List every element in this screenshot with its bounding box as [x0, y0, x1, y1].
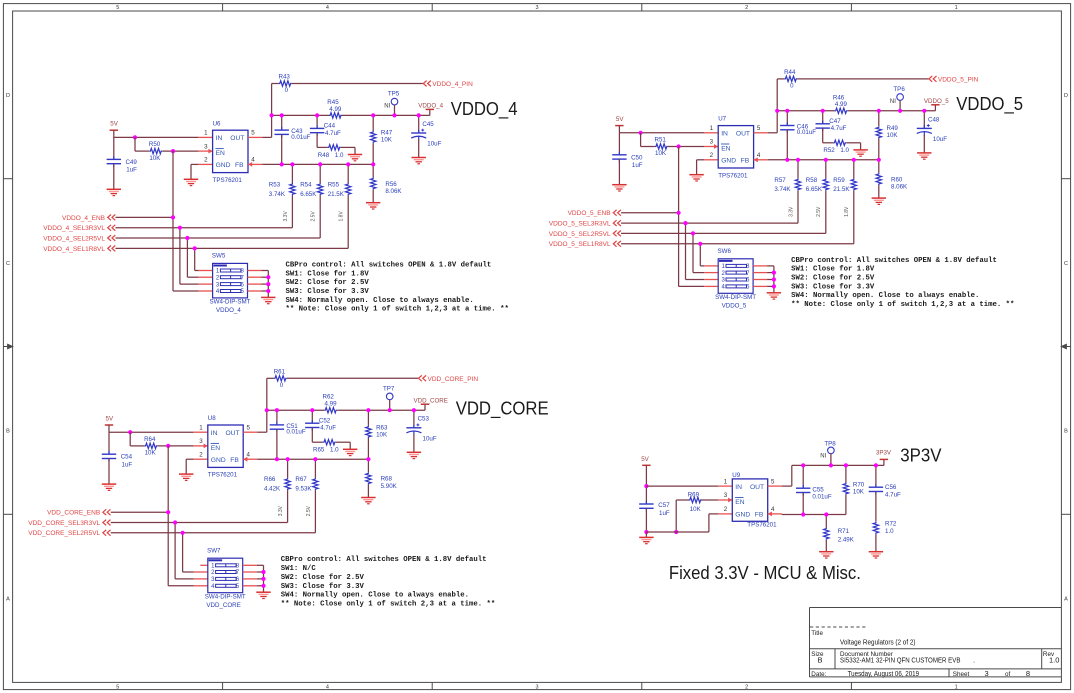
- svg-text:SW5: SW5: [212, 253, 226, 260]
- svg-text:GND: GND: [735, 512, 750, 519]
- svg-text:VDDO_4_SEL3R3VL: VDDO_4_SEL3R3VL: [43, 225, 105, 232]
- svg-text:R72: R72: [885, 521, 897, 528]
- svg-text:NI: NI: [890, 99, 896, 105]
- svg-text:2: 2: [204, 157, 208, 164]
- svg-text:GND: GND: [721, 158, 736, 165]
- svg-text:Tuesday, August 06, 2019: Tuesday, August 06, 2019: [848, 669, 920, 678]
- svg-text:6.65K: 6.65K: [806, 186, 823, 193]
- svg-text:TP8: TP8: [824, 440, 836, 447]
- svg-text:5: 5: [116, 685, 119, 691]
- svg-text:GND: GND: [216, 162, 231, 169]
- svg-text:IN: IN: [211, 430, 218, 437]
- svg-text:1: 1: [199, 424, 203, 431]
- svg-text:** Note: Close only 1 of switc: ** Note: Close only 1 of switch 1,2,3 at…: [286, 306, 509, 314]
- svg-text:4.99: 4.99: [329, 106, 342, 113]
- svg-text:3: 3: [199, 438, 203, 445]
- svg-text:EN: EN: [721, 146, 730, 153]
- svg-text:R60: R60: [891, 176, 903, 183]
- svg-text:NI: NI: [820, 453, 826, 459]
- svg-text:SW4: Normally open. Close to a: SW4: Normally open. Close to always enab…: [281, 592, 469, 600]
- svg-text:0.01uF: 0.01uF: [797, 129, 816, 136]
- svg-text:2: 2: [745, 685, 748, 691]
- svg-text:VDDO_4_SEL1R8VL: VDDO_4_SEL1R8VL: [43, 246, 105, 253]
- svg-text:SW4-DIP-SMT: SW4-DIP-SMT: [205, 593, 246, 600]
- svg-text:10K: 10K: [381, 137, 393, 144]
- svg-text:21.5K: 21.5K: [328, 191, 345, 198]
- svg-text:R59: R59: [833, 177, 845, 184]
- svg-text:2: 2: [710, 152, 714, 159]
- svg-text:5V: 5V: [106, 415, 114, 422]
- svg-text:Voltage Regulators (2 of 2): Voltage Regulators (2 of 2): [840, 638, 916, 647]
- svg-text:4.7uF: 4.7uF: [885, 491, 901, 498]
- svg-text:VDD_CORE_SEL3R3VL: VDD_CORE_SEL3R3VL: [28, 520, 100, 527]
- svg-text:10K: 10K: [690, 506, 702, 513]
- svg-text:3P3V: 3P3V: [876, 449, 892, 456]
- svg-text:1uF: 1uF: [122, 461, 133, 468]
- svg-text:C44: C44: [324, 123, 336, 130]
- svg-text:3.74K: 3.74K: [774, 186, 791, 193]
- svg-text:R50: R50: [149, 141, 161, 148]
- svg-text:SW4: Normally open. Close to a: SW4: Normally open. Close to always enab…: [791, 292, 979, 300]
- svg-text:EN: EN: [216, 150, 225, 157]
- svg-text:1.0: 1.0: [1049, 656, 1059, 665]
- svg-text:U9: U9: [732, 472, 740, 479]
- svg-text:C47: C47: [829, 118, 841, 125]
- svg-text:4.42K: 4.42K: [264, 486, 281, 493]
- svg-text:C53: C53: [418, 416, 430, 423]
- svg-text:TPS76201: TPS76201: [747, 522, 777, 529]
- svg-text:TPS76201: TPS76201: [208, 472, 238, 479]
- svg-text:C54: C54: [121, 454, 133, 461]
- svg-text:SW6: SW6: [718, 248, 732, 255]
- svg-text:TP6: TP6: [893, 86, 905, 93]
- svg-text:C50: C50: [631, 154, 643, 161]
- svg-text:5: 5: [116, 5, 119, 11]
- svg-text:3: 3: [710, 139, 714, 146]
- svg-text:R69: R69: [688, 491, 700, 498]
- svg-text:SW4: Normally open. Close to a: SW4: Normally open. Close to always enab…: [286, 297, 474, 305]
- svg-text:0: 0: [285, 87, 289, 94]
- svg-text:SW1: Close for 1.8V: SW1: Close for 1.8V: [791, 266, 875, 274]
- svg-text:VDDO_5_SEL2R5VL: VDDO_5_SEL2R5VL: [549, 231, 611, 238]
- svg-text:8: 8: [1026, 669, 1030, 678]
- svg-text:C45: C45: [422, 121, 434, 128]
- svg-text:3.3V: 3.3V: [278, 505, 284, 516]
- svg-text:3P3V: 3P3V: [900, 445, 941, 465]
- svg-text:3: 3: [724, 492, 728, 499]
- svg-text:VDDO_5: VDDO_5: [924, 98, 949, 105]
- svg-text:VDDO_4_ENB: VDDO_4_ENB: [62, 215, 105, 222]
- svg-text:2.5V: 2.5V: [311, 211, 317, 222]
- svg-text:10K: 10K: [376, 432, 388, 439]
- svg-text:8.06K: 8.06K: [891, 184, 908, 191]
- svg-text:VDD_CORE: VDD_CORE: [206, 602, 240, 609]
- svg-text:OUT: OUT: [736, 131, 750, 138]
- svg-text:CBPro control: All switches OP: CBPro control: All switches OPEN & 1.8V …: [791, 257, 997, 265]
- svg-text:1.8V: 1.8V: [339, 211, 345, 222]
- svg-text:C56: C56: [885, 484, 897, 491]
- svg-text:C52: C52: [319, 417, 331, 424]
- svg-text:0.01uF: 0.01uF: [291, 134, 310, 141]
- svg-text:U7: U7: [718, 116, 726, 123]
- svg-text:2.5V: 2.5V: [816, 206, 822, 217]
- svg-text:R58: R58: [806, 177, 818, 184]
- svg-text:2: 2: [199, 451, 203, 458]
- svg-text:4.7uF: 4.7uF: [320, 425, 336, 432]
- svg-text:VDDO_5_PIN: VDDO_5_PIN: [938, 76, 979, 83]
- svg-text:SW3: Close for 3.3V: SW3: Close for 3.3V: [281, 583, 365, 591]
- svg-text:SW7: SW7: [207, 548, 221, 555]
- svg-text:8.06K: 8.06K: [385, 188, 402, 195]
- svg-text:R71: R71: [838, 528, 850, 535]
- svg-text:1: 1: [955, 685, 958, 691]
- svg-text:FB: FB: [755, 512, 764, 519]
- svg-text:C: C: [6, 261, 10, 267]
- svg-text:** Note: Close only 1 of switc: ** Note: Close only 1 of switch 2,3 at a…: [281, 601, 496, 609]
- svg-text:VDDO_5_ENB: VDDO_5_ENB: [568, 210, 611, 217]
- svg-text:3.74K: 3.74K: [269, 191, 286, 198]
- svg-text:TPS76201: TPS76201: [213, 177, 243, 184]
- svg-text:21.5K: 21.5K: [833, 186, 850, 193]
- svg-text:R49: R49: [887, 125, 899, 132]
- svg-text:EN: EN: [211, 445, 220, 452]
- svg-text:SW4-DIP-SMT: SW4-DIP-SMT: [210, 299, 251, 306]
- svg-text:4: 4: [326, 5, 329, 11]
- svg-text:9.53K: 9.53K: [295, 486, 312, 493]
- svg-text:R61: R61: [274, 368, 286, 375]
- svg-text:C48: C48: [928, 116, 940, 123]
- svg-text:4.7uF: 4.7uF: [325, 130, 341, 137]
- svg-text:R51: R51: [655, 137, 667, 144]
- svg-text:10uF: 10uF: [427, 141, 441, 148]
- svg-text:VDDO_5: VDDO_5: [722, 303, 747, 310]
- svg-text:TP7: TP7: [383, 385, 395, 392]
- svg-text:A: A: [6, 596, 10, 602]
- svg-text:1.0: 1.0: [885, 528, 894, 535]
- svg-text:VDD_CORE_ENB: VDD_CORE_ENB: [47, 510, 100, 517]
- svg-text:3: 3: [535, 5, 538, 11]
- svg-text:VDDO_5_SEL1R8VL: VDDO_5_SEL1R8VL: [549, 241, 611, 248]
- svg-text:VDD_CORE_PIN: VDD_CORE_PIN: [428, 376, 479, 383]
- svg-text:0: 0: [790, 83, 794, 90]
- svg-text:3: 3: [204, 143, 208, 150]
- svg-text:10K: 10K: [853, 489, 865, 496]
- svg-text:** Note: Close only 1 of switc: ** Note: Close only 1 of switch 1,2,3 at…: [791, 301, 1014, 309]
- svg-text:2.5V: 2.5V: [306, 505, 312, 516]
- svg-text:B: B: [6, 429, 10, 435]
- svg-text:R54: R54: [300, 181, 312, 188]
- svg-text:R53: R53: [269, 181, 281, 188]
- svg-text:10K: 10K: [887, 132, 899, 139]
- svg-text:3.3V: 3.3V: [788, 206, 794, 217]
- svg-text:VDDO_4: VDDO_4: [216, 307, 241, 314]
- svg-text:1uF: 1uF: [632, 162, 643, 169]
- svg-text:IN: IN: [216, 135, 223, 142]
- svg-text:5.90K: 5.90K: [381, 483, 398, 490]
- svg-text:6.65K: 6.65K: [300, 191, 317, 198]
- svg-text:Fixed 3.3V - MCU & Misc.: Fixed 3.3V - MCU & Misc.: [669, 562, 861, 583]
- svg-text:5V: 5V: [616, 116, 624, 123]
- svg-text:5: 5: [251, 130, 255, 137]
- svg-text:1uF: 1uF: [659, 510, 670, 517]
- svg-text:R43: R43: [279, 74, 291, 81]
- svg-text:D: D: [6, 93, 10, 99]
- svg-text:OUT: OUT: [230, 135, 244, 142]
- svg-text:OUT: OUT: [750, 484, 764, 491]
- svg-text:IN: IN: [721, 131, 728, 138]
- svg-text:1.0: 1.0: [335, 152, 344, 159]
- svg-text:SW1: N/C: SW1: N/C: [281, 565, 317, 573]
- svg-text:10K: 10K: [655, 150, 667, 157]
- svg-text:1uF: 1uF: [126, 167, 137, 174]
- svg-text:VDD_CORE: VDD_CORE: [456, 399, 549, 420]
- svg-text:1: 1: [955, 5, 958, 11]
- svg-text:0.01uF: 0.01uF: [286, 429, 305, 436]
- svg-text:VDD_CORE: VDD_CORE: [414, 398, 448, 405]
- svg-text:NI: NI: [384, 104, 390, 110]
- svg-text:1.8V: 1.8V: [844, 206, 850, 217]
- svg-text:0: 0: [280, 382, 284, 389]
- svg-text:C55: C55: [812, 486, 824, 493]
- svg-text:5: 5: [757, 125, 761, 132]
- svg-text:5V: 5V: [110, 121, 118, 128]
- svg-text:R52: R52: [823, 147, 835, 154]
- svg-text:A: A: [1064, 596, 1068, 602]
- svg-text:SW4-DIP-SMT: SW4-DIP-SMT: [715, 294, 756, 301]
- svg-text:U8: U8: [208, 415, 216, 422]
- svg-text:1: 1: [724, 478, 728, 485]
- svg-text:CBPro control: All switches OP: CBPro control: All switches OPEN & 1.8V …: [281, 556, 487, 564]
- svg-text:10K: 10K: [145, 450, 157, 457]
- svg-text:R47: R47: [381, 130, 393, 137]
- svg-text:FB: FB: [230, 457, 239, 464]
- svg-text:4.99: 4.99: [835, 101, 848, 108]
- svg-text:R56: R56: [385, 181, 397, 188]
- svg-text:4.99: 4.99: [325, 401, 338, 408]
- svg-text:VDDO_4_SEL2R5VL: VDDO_4_SEL2R5VL: [43, 235, 105, 242]
- svg-text:VDDO_5_SEL3R3VL: VDDO_5_SEL3R3VL: [549, 221, 611, 228]
- svg-text:SW1: Close for 1.8V: SW1: Close for 1.8V: [286, 270, 370, 278]
- svg-text:FB: FB: [235, 162, 244, 169]
- svg-text:VDDO_4: VDDO_4: [418, 103, 443, 110]
- svg-text:C49: C49: [126, 159, 138, 166]
- svg-text:B: B: [817, 656, 822, 665]
- svg-text:2: 2: [745, 5, 748, 11]
- svg-text:R55: R55: [328, 181, 340, 188]
- svg-text:C: C: [1064, 261, 1068, 267]
- svg-text:C57: C57: [658, 502, 670, 509]
- svg-text:.: .: [973, 656, 975, 665]
- svg-text:R68: R68: [381, 476, 393, 483]
- svg-text:4: 4: [326, 685, 329, 691]
- svg-text:2: 2: [724, 506, 728, 513]
- svg-text:U6: U6: [213, 120, 221, 127]
- svg-text:1.0: 1.0: [330, 447, 339, 454]
- svg-text:OUT: OUT: [225, 430, 239, 437]
- svg-text:SW3: Close for 3.3V: SW3: Close for 3.3V: [791, 283, 875, 291]
- svg-text:Title: Title: [811, 630, 823, 637]
- svg-text:R57: R57: [774, 177, 786, 184]
- svg-text:1: 1: [204, 130, 208, 137]
- svg-text:2.49K: 2.49K: [838, 536, 855, 543]
- svg-text:VDDO_5: VDDO_5: [956, 94, 1023, 115]
- svg-text:R67: R67: [295, 476, 307, 483]
- svg-text:5: 5: [246, 424, 250, 431]
- svg-text:D: D: [1064, 93, 1068, 99]
- svg-text:SW2: Close for 2.5V: SW2: Close for 2.5V: [281, 574, 365, 582]
- svg-text:B: B: [1064, 429, 1068, 435]
- svg-text:4.7uF: 4.7uF: [831, 125, 847, 132]
- svg-text:VDDO_4_PIN: VDDO_4_PIN: [432, 81, 473, 88]
- svg-text:R48: R48: [318, 152, 330, 159]
- svg-text:R64: R64: [144, 436, 156, 443]
- svg-text:R70: R70: [853, 481, 865, 488]
- svg-text:SW2: Close for 2.5V: SW2: Close for 2.5V: [791, 275, 875, 283]
- svg-text:10K: 10K: [149, 155, 161, 162]
- svg-text:CBPro control: All switches OP: CBPro control: All switches OPEN & 1.8V …: [286, 261, 492, 269]
- svg-text:3: 3: [985, 669, 989, 678]
- svg-text:IN: IN: [735, 484, 742, 491]
- svg-text:1: 1: [710, 125, 714, 132]
- svg-text:TP5: TP5: [388, 91, 400, 98]
- svg-text:0.01uF: 0.01uF: [812, 494, 831, 501]
- svg-text:R63: R63: [376, 424, 388, 431]
- svg-text:of: of: [1005, 671, 1011, 678]
- svg-text:FB: FB: [741, 158, 750, 165]
- svg-text:EN: EN: [735, 499, 744, 506]
- svg-text:Date:: Date:: [811, 671, 826, 678]
- svg-text:VDD_CORE_SEL2R5VL: VDD_CORE_SEL2R5VL: [28, 530, 100, 537]
- svg-text:R44: R44: [784, 69, 796, 76]
- svg-text:3: 3: [535, 685, 538, 691]
- svg-text:TPS76201: TPS76201: [718, 172, 748, 179]
- svg-text:5V: 5V: [641, 456, 649, 463]
- svg-text:Sheet: Sheet: [953, 671, 970, 678]
- svg-text:SW3: Close for 3.3V: SW3: Close for 3.3V: [286, 288, 370, 296]
- svg-text:10uF: 10uF: [423, 435, 437, 442]
- svg-text:3.3V: 3.3V: [283, 211, 289, 222]
- svg-text:10uF: 10uF: [933, 136, 947, 143]
- svg-text:R65: R65: [313, 447, 325, 454]
- svg-text:GND: GND: [211, 457, 226, 464]
- svg-text:1.0: 1.0: [840, 147, 849, 154]
- svg-text:R66: R66: [264, 476, 276, 483]
- svg-text:SW2: Close for 2.5V: SW2: Close for 2.5V: [286, 279, 370, 287]
- svg-text:VDDO_4: VDDO_4: [451, 99, 518, 120]
- svg-text:5: 5: [771, 478, 775, 485]
- svg-text:SI5332-AM1 32-PIN QFN CUSTOMER: SI5332-AM1 32-PIN QFN CUSTOMER EVB: [840, 656, 961, 665]
